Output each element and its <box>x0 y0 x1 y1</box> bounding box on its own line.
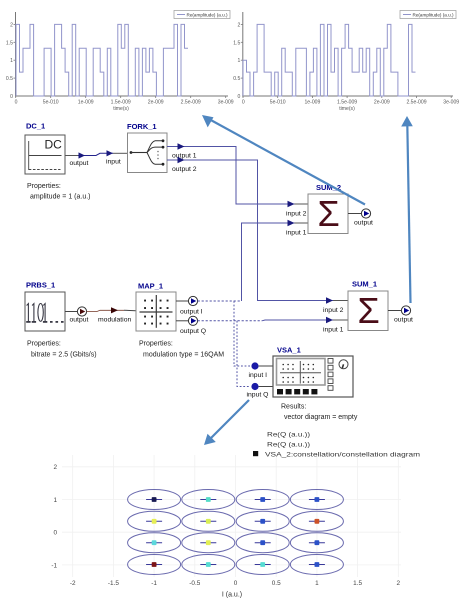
svg-text:output: output <box>354 220 373 227</box>
svg-text:0.5: 0.5 <box>233 76 240 82</box>
plot2 y tick labels <box>233 22 240 100</box>
MAP_1 icon constellation <box>155 295 157 328</box>
svg-text:0: 0 <box>53 530 57 537</box>
plot1 y tick labels <box>6 22 13 100</box>
svg-text:1.5e-009: 1.5e-009 <box>337 100 357 106</box>
DC_1 icon axes <box>28 141 30 170</box>
VSA input Q node <box>251 383 258 390</box>
VSA_1 side buttons <box>328 359 333 391</box>
svg-text:-1: -1 <box>51 562 57 569</box>
port circle output I <box>188 296 197 305</box>
svg-text:FORK_1: FORK_1 <box>127 122 157 131</box>
VSA input I node <box>251 362 258 369</box>
svg-text:input 1: input 1 <box>323 327 344 334</box>
VSA_1 knob <box>339 360 348 369</box>
svg-text:5e-010: 5e-010 <box>43 100 59 106</box>
svg-text:-2: -2 <box>70 580 76 587</box>
svg-text:Properties:: Properties: <box>139 341 173 348</box>
svg-text:Σ: Σ <box>318 193 340 234</box>
svg-text:modulation type = 16QAM: modulation type = 16QAM <box>143 352 224 359</box>
svg-text:1: 1 <box>53 497 57 504</box>
svg-text:output I: output I <box>180 309 203 316</box>
svg-text:2.5e-009: 2.5e-009 <box>406 100 426 106</box>
svg-text:1: 1 <box>237 58 240 64</box>
plot1 waveform <box>16 24 188 96</box>
plot2 y-axis <box>242 12 244 97</box>
svg-text:output 1: output 1 <box>172 153 197 160</box>
svg-text:output: output <box>70 160 89 167</box>
svg-text:2e-009: 2e-009 <box>148 100 164 106</box>
svg-text:time(s): time(s) <box>339 106 355 112</box>
svg-text:1.5: 1.5 <box>353 580 362 587</box>
svg-text:input 1: input 1 <box>286 230 307 237</box>
svg-text:Re(amplitude) (a.u.): Re(amplitude) (a.u.) <box>187 12 228 17</box>
arrowhead output <box>79 152 86 158</box>
plot1 x-axis <box>15 95 228 97</box>
svg-text:input Q: input Q <box>247 392 269 399</box>
svg-text:PRBS_1: PRBS_1 <box>26 281 55 290</box>
plot1 x tick labels <box>15 100 234 113</box>
SUM_2 output port <box>348 213 361 215</box>
svg-text:0.5: 0.5 <box>6 76 13 82</box>
FORK_1 body <box>128 133 168 173</box>
svg-text:0: 0 <box>15 100 18 106</box>
FORK_1 icon <box>130 151 133 154</box>
svg-text:Results:: Results: <box>281 404 306 411</box>
svg-text:input 2: input 2 <box>323 307 344 314</box>
plot1 legend <box>174 11 230 19</box>
plot2 x tick labels <box>242 100 459 113</box>
SUM_1 body <box>348 291 388 331</box>
x axis labels <box>70 580 401 587</box>
SUM_1 output port <box>388 310 401 312</box>
constellation markers <box>152 497 320 567</box>
VSA_1 screen <box>277 359 326 386</box>
plot2 x-axis <box>242 95 453 97</box>
svg-text:5e-010: 5e-010 <box>270 100 286 106</box>
svg-text:Re(Q (a.u.)): Re(Q (a.u.)) <box>267 432 310 439</box>
svg-text:Re(amplitude) (a.u.): Re(amplitude) (a.u.) <box>413 12 454 17</box>
svg-text:1.5: 1.5 <box>6 40 13 46</box>
VSA_1 body <box>273 356 353 397</box>
svg-text:1: 1 <box>10 58 13 64</box>
svg-text:input 2: input 2 <box>286 211 307 218</box>
svg-text:output 2: output 2 <box>172 166 197 173</box>
error bars <box>146 500 325 565</box>
svg-text:2: 2 <box>397 580 401 587</box>
svg-text:1: 1 <box>315 580 319 587</box>
port circle output <box>77 307 86 316</box>
svg-text:output Q: output Q <box>180 328 206 335</box>
svg-text:modulation: modulation <box>98 317 131 324</box>
svg-text:2.5e-009: 2.5e-009 <box>181 100 201 106</box>
y axis labels <box>51 464 57 569</box>
ellipses <box>128 490 344 575</box>
svg-text:3e-009: 3e-009 <box>218 100 234 106</box>
plot2 waveform <box>243 24 416 96</box>
svg-text:input: input <box>106 159 121 166</box>
PRBS_1 body <box>25 292 65 331</box>
port circle output Q <box>188 316 197 325</box>
svg-text:DC_1: DC_1 <box>26 122 45 131</box>
svg-text:-1.5: -1.5 <box>108 580 119 587</box>
svg-text:1.5: 1.5 <box>233 40 240 46</box>
svg-text:2: 2 <box>10 22 13 28</box>
svg-text:2: 2 <box>237 22 240 28</box>
svg-text:Σ: Σ <box>358 290 380 331</box>
svg-text:output: output <box>70 317 89 324</box>
svg-text:I (a.u.): I (a.u.) <box>222 592 242 599</box>
plot1 y-axis <box>15 12 17 97</box>
svg-text:input I: input I <box>249 372 268 379</box>
arrowhead input <box>107 150 114 156</box>
svg-text:0: 0 <box>234 580 238 587</box>
svg-text:1.5e-009: 1.5e-009 <box>111 100 131 106</box>
DC_1 body <box>25 135 65 174</box>
svg-text:Re(Q (a.u.)): Re(Q (a.u.)) <box>267 442 310 449</box>
plot2 legend <box>400 11 456 19</box>
svg-text:output: output <box>394 317 413 324</box>
svg-text:2e-009: 2e-009 <box>374 100 390 106</box>
PRBS_1 icon 1101... <box>26 304 63 322</box>
svg-text:VSA_2:constellation/constellat: VSA_2:constellation/constellation diagra… <box>265 452 421 459</box>
svg-text:0.5: 0.5 <box>272 580 281 587</box>
svg-text:VSA_1: VSA_1 <box>277 346 301 355</box>
svg-text:2: 2 <box>53 464 57 471</box>
MAP_1 body <box>136 292 176 331</box>
svg-text:1e-009: 1e-009 <box>304 100 320 106</box>
svg-text:bitrate = 2.5 (Gbits/s): bitrate = 2.5 (Gbits/s) <box>31 352 97 359</box>
grid vertical lines <box>73 455 399 577</box>
svg-text:Properties:: Properties: <box>27 183 61 190</box>
svg-text:0: 0 <box>10 94 13 100</box>
svg-text:0: 0 <box>237 94 240 100</box>
SUM_2 body <box>308 194 348 234</box>
svg-text:Properties:: Properties: <box>27 341 61 348</box>
svg-text:amplitude = 1 (a.u.): amplitude = 1 (a.u.) <box>30 194 91 201</box>
svg-text:1e-009: 1e-009 <box>78 100 94 106</box>
svg-text:SUM_1: SUM_1 <box>352 280 377 289</box>
svg-text:-0.5: -0.5 <box>189 580 200 587</box>
svg-text:time(s): time(s) <box>113 106 129 112</box>
VSA_1 bottom buttons <box>277 389 317 394</box>
grid horizontal lines <box>62 467 401 565</box>
svg-text:MAP_1: MAP_1 <box>138 282 163 291</box>
svg-text:vector diagram = empty: vector diagram = empty <box>284 414 358 421</box>
svg-text:0: 0 <box>242 100 245 106</box>
svg-text:-1: -1 <box>151 580 157 587</box>
svg-text:3e-009: 3e-009 <box>443 100 459 106</box>
svg-text:DC: DC <box>45 138 63 152</box>
